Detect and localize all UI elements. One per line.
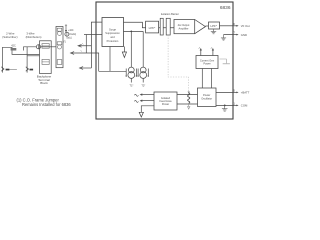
svg-text:(*): (*) xyxy=(64,42,67,44)
svg-text:(adj.): (adj.) xyxy=(67,38,72,40)
wire through barrier xyxy=(159,27,174,29)
amplifier U1 xyxy=(174,20,195,34)
wire gen to oscillator B xyxy=(211,69,213,89)
node subscriber drop arrow xyxy=(1,67,4,71)
label 2-wire distribution pair xyxy=(26,32,42,40)
ground G1 under LPF2 xyxy=(211,29,216,34)
inductor L3 xyxy=(188,93,190,103)
arrow supply B xyxy=(212,50,214,56)
wire oscillator to pin 5 xyxy=(216,91,233,93)
svg-text:Surge: Surge xyxy=(109,27,116,31)
wire subscriber pair bracket xyxy=(3,47,40,72)
barrier element right xyxy=(166,18,170,35)
terminal block box xyxy=(40,41,52,74)
jumper J3 xyxy=(57,60,62,65)
svg-text:T1*: T1* xyxy=(130,84,134,87)
svg-text:GND: GND xyxy=(241,33,247,37)
wire to frame arrow xyxy=(141,106,154,113)
wire faint bleed resistor xyxy=(220,59,227,63)
coil L2 xyxy=(58,45,62,49)
surge suppression box xyxy=(102,18,124,47)
wire T2 feed xyxy=(142,31,144,67)
low pass filter LPF2 xyxy=(209,22,220,29)
svg-text:LPF*: LPF* xyxy=(210,24,217,28)
wire inside-left L xyxy=(99,47,127,72)
wire LPF2 to pin 6 xyxy=(220,25,234,27)
svg-text:42C: 42C xyxy=(11,44,16,47)
wire ring signal A xyxy=(142,94,154,96)
label terminal block xyxy=(37,75,52,86)
svg-text:T2*: T2* xyxy=(141,84,145,87)
wire oscillator to pin 1 xyxy=(216,104,233,106)
svg-text:Remains Installed for 6836: Remains Installed for 6836 xyxy=(22,102,71,107)
isolated power box xyxy=(154,92,177,110)
svg-text:+BATT: +BATT xyxy=(241,91,250,95)
svg-text:(Subscriber): (Subscriber) xyxy=(2,35,17,39)
node junction dot C xyxy=(224,104,226,106)
svg-text:Power: Power xyxy=(203,61,210,65)
wire surge to LPF xyxy=(124,22,146,27)
arrow supply A xyxy=(200,50,202,56)
wire ground to pin 7 xyxy=(224,34,234,36)
footnote xyxy=(17,98,72,107)
svg-text:Isolation Barrier: Isolation Barrier xyxy=(161,12,179,16)
ground G2 xyxy=(221,35,226,41)
svg-text:NoAdj: NoAdj xyxy=(70,33,77,36)
frame hollow arrow xyxy=(139,112,143,117)
label surge suppression xyxy=(105,27,120,42)
wire input mid with arrow xyxy=(72,53,99,71)
wire isolated power out A xyxy=(177,93,198,95)
svg-text:Amplifier: Amplifier xyxy=(178,26,188,30)
svg-text:6836: 6836 xyxy=(220,5,231,11)
svg-text:LPF*: LPF* xyxy=(149,26,157,30)
hollow arrow below inductor xyxy=(188,104,190,107)
svg-text:Oscillator: Oscillator xyxy=(201,96,212,100)
svg-text:Protection: Protection xyxy=(107,39,119,43)
wire jack to jumper box xyxy=(41,46,56,48)
svg-text:COM: COM xyxy=(241,104,248,108)
wire amp to LPF2 xyxy=(205,25,208,27)
wire isolated power out B xyxy=(177,103,198,105)
current generator box xyxy=(196,56,218,69)
wire distribution pair bracket xyxy=(24,47,37,51)
protector block P1 xyxy=(11,48,17,51)
node test jack xyxy=(36,45,40,49)
svg-text:+42C: +42C xyxy=(68,30,74,32)
label 2-wire subscriber pair xyxy=(2,32,17,40)
node junction dot A xyxy=(65,30,67,32)
wire T1 feed xyxy=(130,31,132,67)
barrier element left xyxy=(160,18,163,35)
svg-text:Block: Block xyxy=(40,81,48,85)
power oscillator box xyxy=(198,88,217,107)
wire input top with arrow xyxy=(79,22,102,68)
node distribution drop arrow xyxy=(26,67,29,71)
wire subscriber stub xyxy=(6,69,10,71)
wire barrier dashed isolation line xyxy=(168,35,189,91)
amplifier triangle xyxy=(195,20,206,34)
wire surge to transformers xyxy=(124,30,144,32)
svg-text:Power: Power xyxy=(162,102,169,106)
svg-text:(Distribution): (Distribution) xyxy=(26,35,42,39)
wire gen to oscillator A xyxy=(201,69,203,89)
protector element F2 xyxy=(42,59,49,64)
ground hollow arrow below surge box xyxy=(123,47,125,53)
node junction dot B xyxy=(130,31,132,33)
svg-text:Suppression: Suppression xyxy=(105,31,120,35)
label lamp note xyxy=(64,30,77,44)
protector element F1 xyxy=(42,44,49,49)
transformer T1 xyxy=(126,67,136,82)
transformer T2 xyxy=(138,67,148,82)
jumper J1 xyxy=(57,28,62,31)
lamp indicator xyxy=(65,32,69,36)
ground G3 xyxy=(222,105,228,111)
jumper options box xyxy=(56,27,63,68)
svg-text:and: and xyxy=(110,35,115,39)
wire ring signal B xyxy=(142,100,154,102)
jumper J2 xyxy=(57,42,62,45)
wire lamp to surge box xyxy=(84,34,102,36)
coil L1 xyxy=(58,31,62,35)
svg-text:VF Out: VF Out xyxy=(241,24,250,28)
module outline 6836 xyxy=(96,2,233,119)
wire input low with arrow xyxy=(81,67,92,69)
low pass filter LPF1 xyxy=(146,21,159,33)
